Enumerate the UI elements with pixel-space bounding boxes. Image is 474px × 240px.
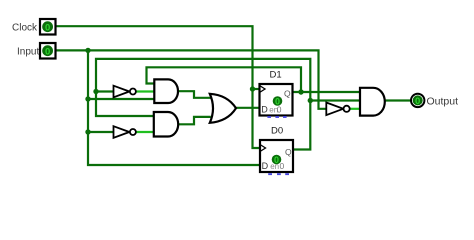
wire NOT2 input feed	[88, 131, 114, 133]
svg-text:D: D	[261, 105, 268, 115]
node Q0 branch junction	[308, 98, 313, 103]
svg-text:D: D	[262, 161, 269, 171]
inverter NOT1	[114, 86, 136, 98]
node AND1 bottom feed junction	[85, 96, 90, 101]
inverter NOT3	[326, 103, 349, 116]
wire OR output to D1 D input	[236, 107, 260, 109]
wire AND1 bottom input feed	[88, 98, 154, 100]
svg-text:0: 0	[415, 96, 420, 107]
input pin Clock	[12, 19, 56, 35]
flip-flop D1	[260, 70, 293, 118]
output pin Output	[411, 94, 458, 108]
inverter NOT2	[114, 126, 136, 138]
wire AND1 output to OR top input	[178, 91, 211, 98]
svg-text:0: 0	[45, 22, 50, 33]
wire final AND output to output pin	[385, 99, 410, 101]
wire clock stub to D1 clock	[253, 88, 260, 90]
and-gate AND1	[154, 79, 178, 103]
svg-text:0: 0	[280, 161, 285, 171]
wire AND2 output to OR bottom input	[178, 117, 211, 124]
node NOT2 feed junction	[85, 129, 90, 134]
flip-flop D0	[260, 126, 293, 176]
wire NOT2 output (high)	[136, 131, 154, 133]
wire Q1 branch up over to AND1 top input	[147, 67, 302, 92]
svg-text:0: 0	[277, 105, 282, 115]
node clock D1 junction	[250, 86, 255, 91]
svg-text:en: en	[270, 162, 279, 171]
wire NOT1 input feed	[96, 90, 114, 92]
svg-text:Input: Input	[17, 46, 39, 57]
node input junction	[85, 48, 90, 53]
svg-text:Output: Output	[427, 95, 459, 107]
wire NOT1 output (high)	[136, 90, 154, 92]
svg-text:D1: D1	[270, 70, 282, 81]
node Q1 junction	[298, 89, 303, 94]
svg-text:Q: Q	[284, 88, 291, 98]
wire input net horizontal to NOT3	[56, 50, 327, 108]
or-gate OR1	[210, 94, 236, 123]
input pin Input	[17, 43, 56, 59]
wire Q0 net from D0 Q up and around to AND2 top input	[96, 59, 310, 150]
wire NOT3 output (high)	[350, 108, 360, 110]
wire Q1 net from D1 Q to final AND top input	[293, 91, 361, 93]
wire clock net: pin to clock vertical, down to D0 clock	[56, 26, 261, 148]
svg-text:Q: Q	[285, 147, 292, 157]
svg-text:D0: D0	[271, 126, 283, 137]
node NOT1 feed junction	[93, 89, 98, 94]
wire Q0 branch to final AND middle input	[310, 99, 360, 101]
svg-text:Clock: Clock	[12, 22, 38, 33]
and-gate AND2	[154, 112, 178, 137]
and-gate AND3 (output)	[360, 88, 385, 116]
svg-text:0: 0	[45, 46, 50, 57]
wire input branch vertical x=88 down to D0 D input	[88, 50, 260, 165]
